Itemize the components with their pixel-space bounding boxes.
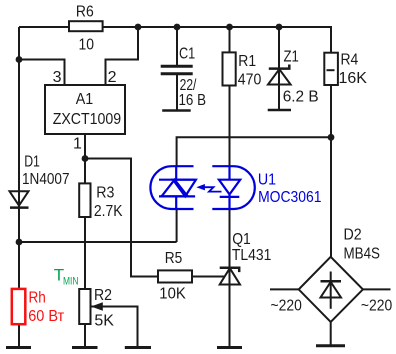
svg-text:ZXCT1009: ZXCT1009 [53, 111, 122, 128]
svg-text:Z1: Z1 [284, 49, 299, 66]
svg-text:16 В: 16 В [179, 92, 207, 109]
svg-text:Rh: Rh [29, 290, 46, 307]
svg-text:5K: 5K [94, 312, 114, 329]
svg-text:R3: R3 [96, 185, 114, 202]
svg-text:MOC3061: MOC3061 [258, 189, 321, 206]
svg-text:10K: 10K [159, 285, 186, 302]
svg-text:A1: A1 [76, 91, 94, 108]
svg-text:470: 470 [238, 71, 262, 88]
svg-text:MIN: MIN [63, 275, 79, 287]
svg-text:1: 1 [73, 136, 82, 153]
svg-text:R2: R2 [94, 287, 112, 304]
svg-text:60 Вт: 60 Вт [28, 308, 65, 325]
svg-text:Q1: Q1 [232, 231, 251, 248]
svg-text:~220: ~220 [361, 297, 392, 314]
svg-text:2.7K: 2.7K [94, 203, 123, 220]
svg-text:16K: 16K [339, 70, 368, 87]
svg-text:~220: ~220 [271, 297, 302, 314]
svg-text:U1: U1 [258, 172, 276, 189]
svg-text:C1: C1 [179, 46, 195, 63]
svg-text:6.2 В: 6.2 В [283, 88, 319, 105]
svg-text:R1: R1 [238, 53, 256, 70]
svg-text:2: 2 [108, 69, 117, 86]
svg-text:MB4S: MB4S [344, 246, 381, 263]
svg-text:TL431: TL431 [232, 247, 272, 264]
svg-text:R5: R5 [165, 250, 183, 267]
svg-text:R6: R6 [76, 4, 94, 21]
svg-text:3: 3 [53, 69, 62, 86]
svg-text:D1: D1 [24, 154, 40, 171]
svg-text:10: 10 [79, 36, 95, 53]
svg-text:R4: R4 [341, 52, 359, 69]
svg-text:D2: D2 [344, 227, 362, 244]
svg-text:1N4007: 1N4007 [22, 171, 70, 188]
